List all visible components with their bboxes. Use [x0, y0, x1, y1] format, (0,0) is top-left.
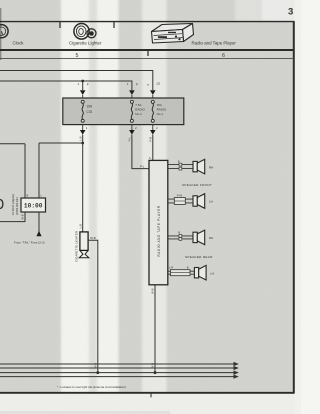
wire W-B: lighter ground down to bus	[88, 240, 98, 372]
wire L-B: CIG fuse down to junction and cigarette lighter	[82, 135, 84, 232]
speaker rear LH	[194, 265, 206, 280]
header divider tick x60	[59, 22, 61, 28]
node: junction radio ground on bus	[154, 371, 157, 374]
wire pair: rear LH speaker	[168, 270, 195, 276]
wire: clock illumination from TAIL fuse	[38, 212, 40, 236]
connector: from page edge (half circle)	[0, 200, 3, 209]
header frame top border	[0, 21, 294, 23]
fuse F2 7.5A RADIO No.2	[130, 100, 133, 122]
ground bus line 1	[0, 363, 238, 366]
header bottom thick line	[0, 49, 294, 51]
bottom page border	[0, 392, 294, 394]
icon: cigarette lighter	[74, 24, 96, 40]
connector below RADIO No.1 fuse	[150, 125, 158, 135]
connector 2D above RADIO No.1 fuse	[147, 82, 161, 99]
wire pair: rear RH speaker	[168, 235, 193, 241]
ground bus line 4	[0, 375, 238, 378]
speaker rear RH	[193, 230, 205, 245]
icon: clock (cut at left edge)	[0, 25, 8, 38]
header thin line under column numbers	[0, 58, 294, 60]
wire: clock left pin drop	[24, 144, 26, 198]
fuse box	[63, 98, 184, 125]
wire: feed line B (horizontal to fuse RADIO No.2)	[0, 81, 132, 90]
clock unit box 10:00	[21, 198, 46, 212]
cigarette lighter element	[79, 232, 89, 258]
connector 1F above CIG fuse	[78, 82, 90, 98]
node: junction on line B feeding CIG fuse	[81, 80, 84, 83]
speaker front RH	[193, 159, 205, 174]
speaker front LH	[193, 194, 205, 209]
wire: clock left pin from page edge	[0, 143, 25, 145]
ground bus line 3	[0, 371, 238, 374]
wire P-B: RADIO No.1 fuse to radio top	[152, 135, 154, 161]
wire: feed line A (top horizontal to fuse RADIO No.1)	[0, 71, 153, 91]
wire: clock feed branch	[39, 142, 83, 144]
icon: radio and tape player (3D box)	[152, 24, 194, 44]
fuse F3 15A RADIO No.1	[151, 100, 154, 122]
fuse F1 15A CIG	[81, 100, 84, 122]
node: junction to clock feed	[81, 142, 84, 145]
wire: clock right pin drop	[38, 143, 40, 198]
connector 1F above RADIO No.2 fuse	[127, 82, 139, 98]
wire: clock ground to page edge	[0, 212, 25, 222]
right page border	[293, 21, 295, 394]
wire: drop to CIG fuse	[82, 81, 84, 90]
wire W-B: radio ground down to bus	[154, 285, 156, 373]
radio and tape player unit box	[149, 160, 168, 284]
column divider tick x148	[147, 50, 149, 56]
connector below CIG fuse	[80, 125, 88, 135]
connector below RADIO No.2 fuse	[129, 125, 137, 135]
wire P-L: RADIO No.2 fuse to radio left input	[132, 135, 149, 169]
connector arrow from TAIL fuse	[36, 231, 41, 236]
bottom divider tick x151	[150, 394, 152, 398]
wire pair: front RH speaker	[168, 163, 193, 170]
header divider tick x114	[113, 22, 115, 28]
wire pair: front LH speaker	[168, 198, 193, 205]
ground bus line 2	[0, 367, 238, 370]
node: junction lighter ground on bus	[96, 371, 99, 374]
